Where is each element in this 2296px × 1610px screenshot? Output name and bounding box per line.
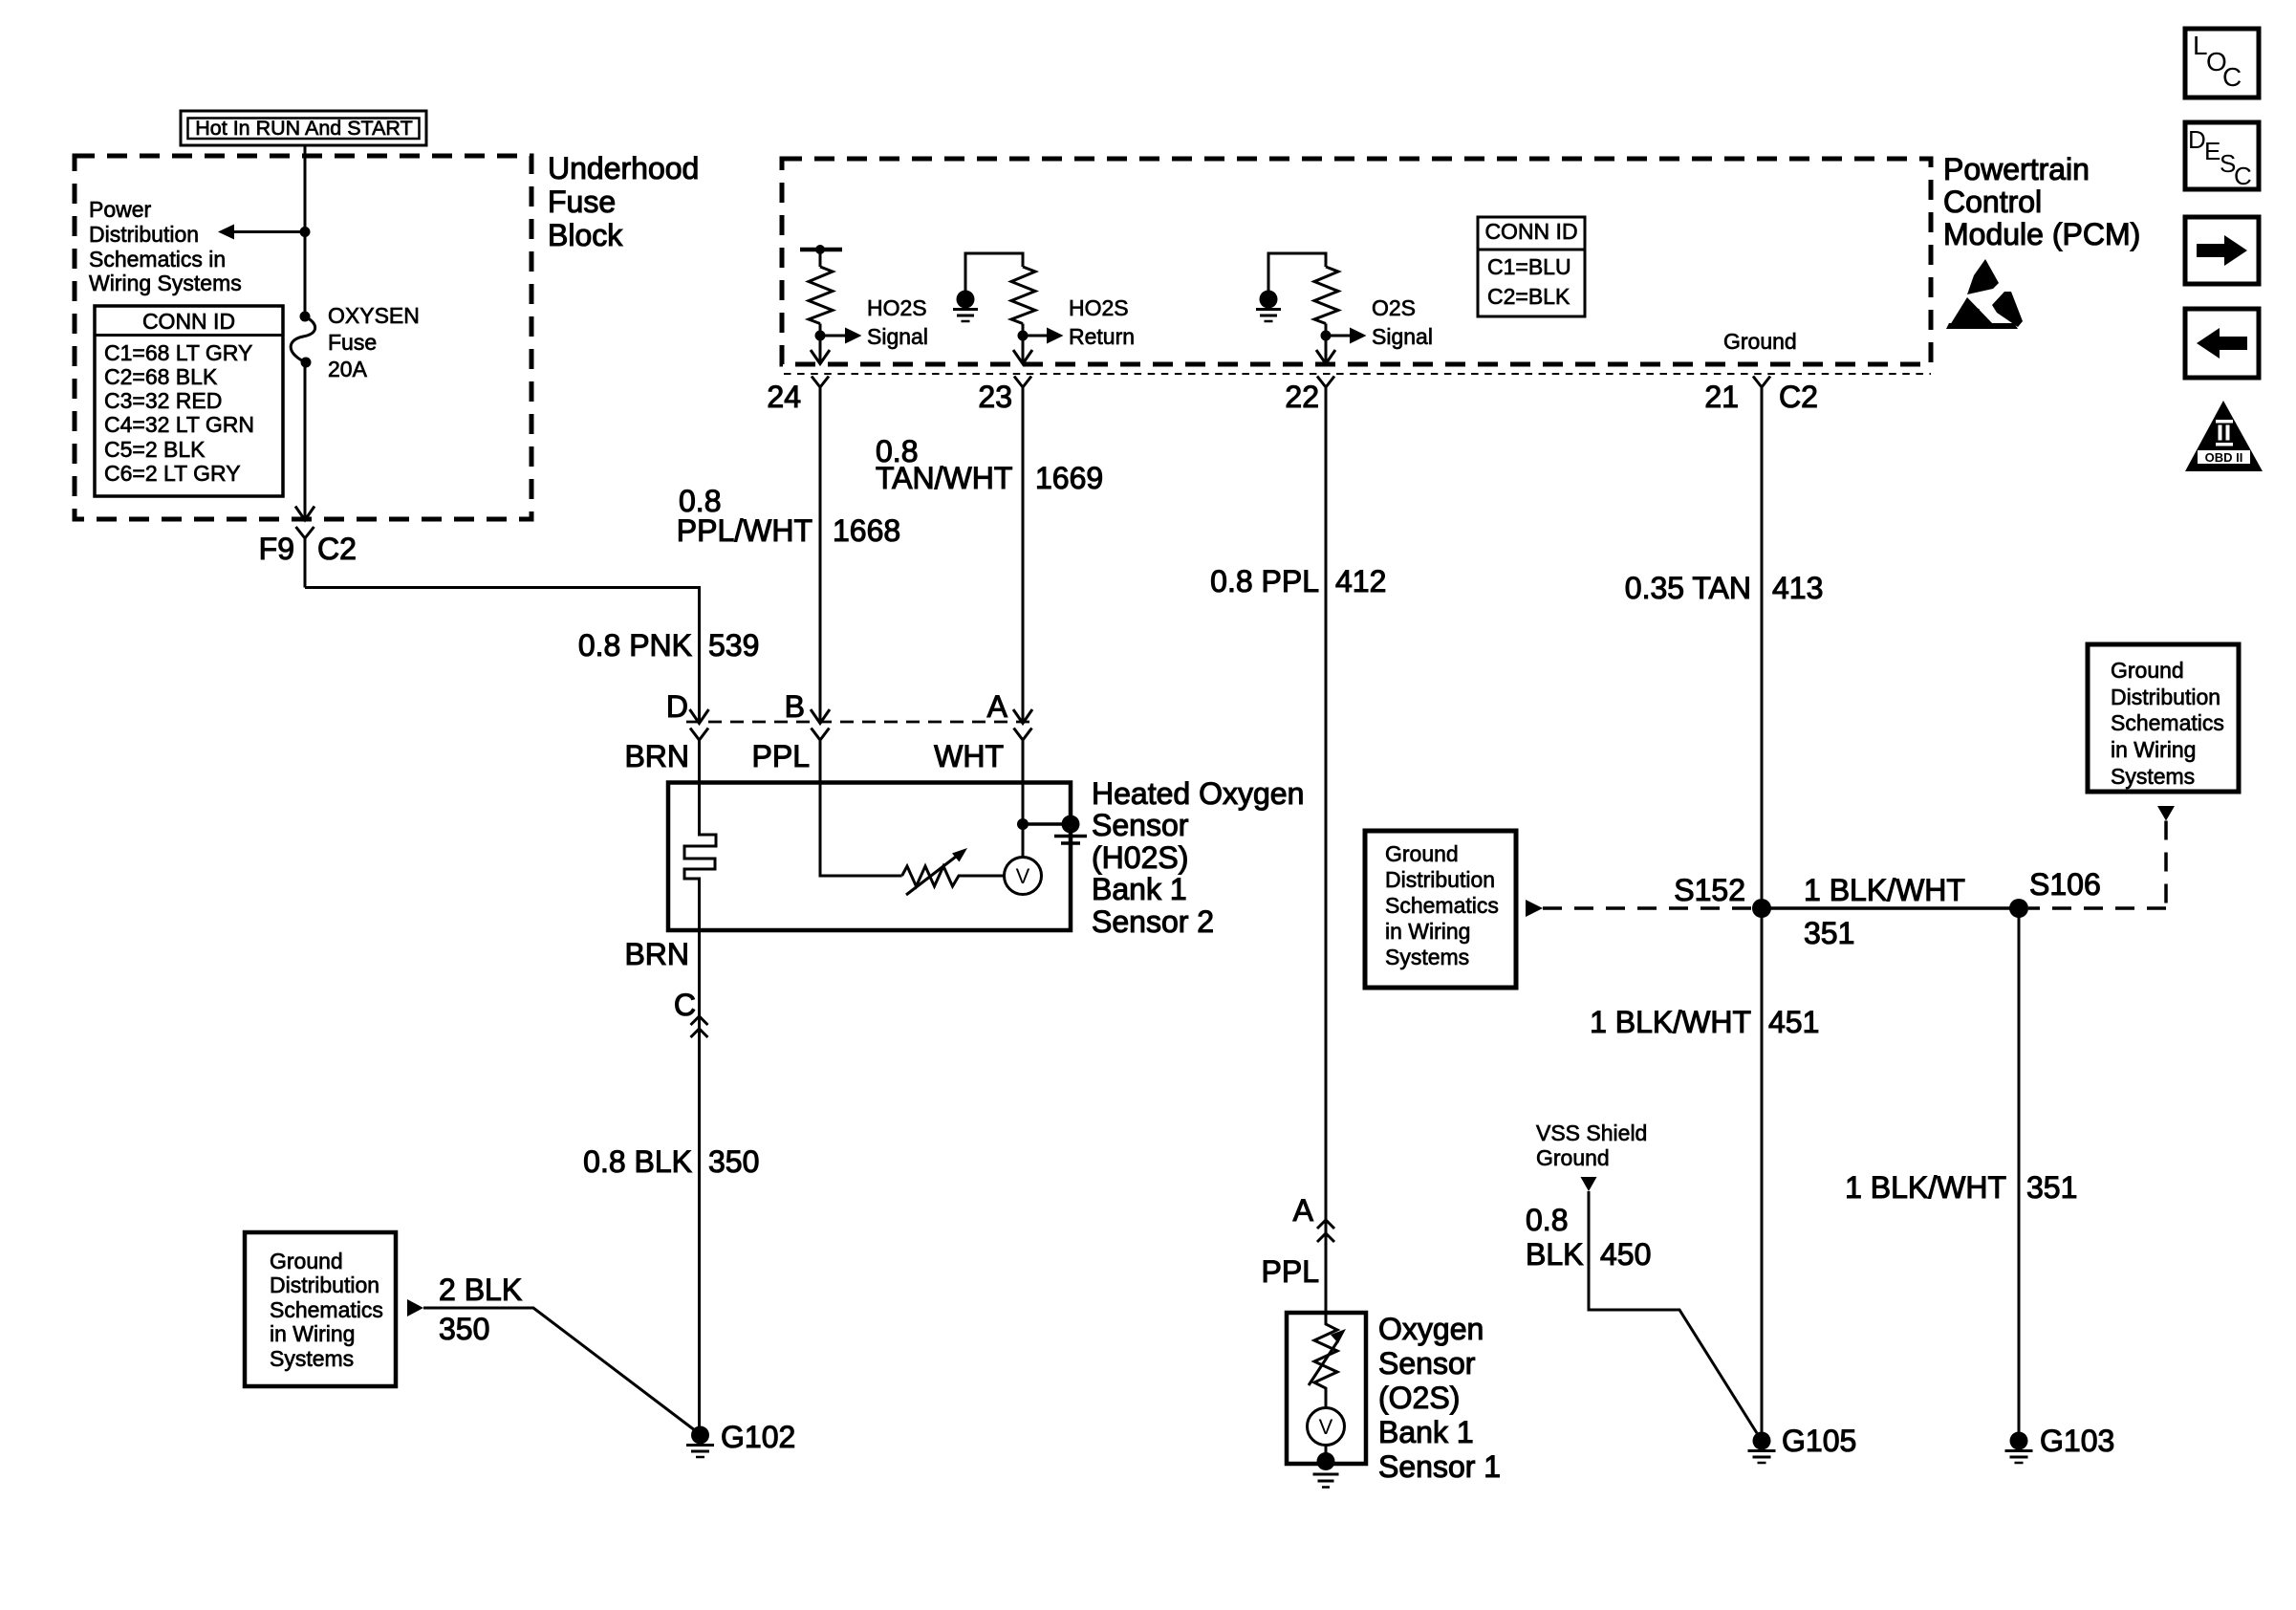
svg-text:Powertrain: Powertrain	[1943, 152, 2090, 186]
svg-text:0.8 BLK: 0.8 BLK	[583, 1144, 692, 1179]
pin 24 female	[812, 377, 829, 388]
svg-text:C1=BLU: C1=BLU	[1487, 254, 1571, 279]
svg-text:D: D	[2188, 125, 2206, 154]
label: Underhood Fuse Block	[548, 151, 699, 252]
svg-text:C4=32 LT GRN: C4=32 LT GRN	[104, 412, 254, 437]
voltmeter V (HO2S cell)	[1005, 858, 1042, 895]
node: splice S106	[2009, 899, 2028, 918]
pin B male arrow	[811, 709, 830, 724]
svg-text:C2=68 BLK: C2=68 BLK	[104, 364, 218, 389]
label: Power Distribution Schematics in Wiring Systems	[89, 197, 242, 295]
svg-text:Sensor 1: Sensor 1	[1378, 1449, 1501, 1484]
node: junction WHT to case ground	[1017, 818, 1029, 830]
svg-text:C5=2 BLK: C5=2 BLK	[104, 437, 206, 462]
wire: dashed reference to S152	[1543, 906, 1762, 910]
node: junction R3 to O2S Signal	[1321, 331, 1332, 341]
wire: feed from Hot In RUN And START down to fuse	[304, 145, 307, 316]
ground G103	[2005, 1432, 2033, 1464]
label: HO2S Return	[1069, 295, 1135, 349]
svg-text:Bank 1: Bank 1	[1378, 1415, 1474, 1449]
inline connector line (HO2S harness connector D/B/A)	[686, 721, 1038, 724]
wire: O2S Signal arrow	[1326, 328, 1367, 344]
PCM harness connector line	[784, 373, 1931, 375]
svg-text:C: C	[2234, 162, 2252, 190]
svg-text:in Wiring: in Wiring	[270, 1321, 355, 1346]
label: Heated Oxygen Sensor (H02S) Bank 1 Sensor 2	[1092, 776, 1304, 939]
connector ID table (underhood fuse block)	[95, 306, 283, 496]
svg-text:Fuse: Fuse	[328, 330, 377, 355]
pin 23 male arrow	[1013, 350, 1032, 364]
svg-text:Schematics: Schematics	[270, 1297, 383, 1322]
resistor R1 (HO2S signal pull)	[800, 245, 842, 364]
svg-text:412: 412	[1335, 564, 1386, 598]
svg-text:Ground: Ground	[1385, 841, 1459, 866]
label: 0.8 PPL 412	[1210, 564, 1386, 598]
label: VSS Shield Ground	[1536, 1120, 1647, 1170]
svg-text:Distribution: Distribution	[1385, 867, 1495, 892]
svg-text:CONN ID: CONN ID	[1484, 219, 1577, 244]
svg-text:20A: 20A	[328, 357, 368, 381]
svg-text:Ground: Ground	[2111, 658, 2184, 683]
svg-text:Systems: Systems	[270, 1346, 354, 1371]
svg-text:539: 539	[708, 628, 759, 663]
wire: HO2S Return arrow	[1023, 328, 1064, 344]
svg-text:C6=2 LT GRY: C6=2 LT GRY	[104, 461, 241, 486]
svg-text:V: V	[1016, 864, 1030, 888]
svg-text:413: 413	[1772, 571, 1823, 605]
pin A male arrow	[1013, 709, 1032, 724]
svg-text:1669: 1669	[1035, 461, 1103, 495]
svg-text:(H02S): (H02S)	[1092, 840, 1188, 875]
svg-text:1 BLK/WHT: 1 BLK/WHT	[1804, 873, 1965, 907]
pin 21 female	[1753, 377, 1770, 388]
svg-text:C3=32 RED: C3=32 RED	[104, 388, 222, 413]
svg-text:BRN: BRN	[624, 937, 689, 971]
svg-text:Sensor: Sensor	[1092, 808, 1189, 842]
label: 0.8 PPL/WHT 1668	[677, 484, 900, 548]
svg-text:Ground: Ground	[1723, 329, 1797, 354]
pin D female	[690, 729, 708, 741]
svg-text:S152: S152	[1674, 873, 1745, 907]
node: junction R2 to HO2S Return	[1018, 331, 1029, 341]
label: 0.8 BLK 450	[1526, 1203, 1651, 1272]
svg-text:HO2S: HO2S	[1069, 295, 1129, 320]
svg-text:1 BLK/WHT: 1 BLK/WHT	[1590, 1005, 1751, 1039]
inline connector A (O2S pigtail, double chevron)	[1317, 1220, 1334, 1242]
svg-text:1 BLK/WHT: 1 BLK/WHT	[1845, 1170, 2006, 1205]
ground (PCM internal, R2)	[953, 291, 978, 322]
svg-text:Schematics: Schematics	[1385, 893, 1499, 918]
off-page arrow from ground distribution box	[407, 1299, 423, 1316]
ground distribution reference box (bottom left)	[245, 1232, 396, 1386]
pin 22 male arrow	[1316, 350, 1335, 364]
label: Powertrain Control Module (PCM)	[1943, 152, 2140, 251]
svg-text:Underhood: Underhood	[548, 151, 699, 185]
svg-text:(O2S): (O2S)	[1378, 1381, 1460, 1415]
svg-text:B: B	[785, 689, 805, 724]
svg-text:S106: S106	[2029, 867, 2101, 902]
svg-text:Distribution: Distribution	[2111, 685, 2220, 709]
svg-text:VSS Shield: VSS Shield	[1536, 1120, 1647, 1145]
svg-text:350: 350	[708, 1144, 759, 1179]
svg-text:OBD II: OBD II	[2205, 450, 2243, 465]
wire: PPL into sensing element	[820, 740, 902, 876]
wire: WHT into cell	[1022, 740, 1025, 858]
svg-text:Distribution: Distribution	[270, 1273, 379, 1297]
wire: 0.8 BLK 450 to G105	[1589, 1191, 1757, 1433]
label: 0.8 TAN/WHT 1669	[876, 434, 1103, 495]
svg-text:PPL: PPL	[1262, 1254, 1319, 1289]
wire: 0.8 TAN/WHT 1669 (pin 23 to connector A)	[1022, 387, 1025, 724]
svg-text:HO2S: HO2S	[867, 295, 927, 320]
svg-text:2 BLK: 2 BLK	[439, 1273, 522, 1307]
wire: 0.8 PPL/WHT 1668 (pin 24 to connector B)	[819, 387, 822, 724]
svg-text:0.8 PNK: 0.8 PNK	[578, 628, 692, 663]
wire: to case ground	[1023, 822, 1071, 826]
power source box "Hot In RUN And START"	[181, 111, 426, 145]
svg-text:C2: C2	[317, 532, 357, 566]
ESD sensitivity symbol	[1946, 259, 2023, 329]
svg-text:C2: C2	[1779, 380, 1818, 414]
pin 23 female	[1014, 377, 1031, 388]
label: O2S Signal	[1372, 295, 1433, 349]
wire: 0.8 PNK 539 from F9/C2 to HO2S connector pin D	[305, 588, 700, 724]
label: 1 BLK/WHT 351	[1804, 873, 1965, 950]
svg-text:Schematics: Schematics	[2111, 710, 2224, 735]
svg-text:Ground: Ground	[1536, 1145, 1610, 1170]
case ground symbol on HO2S housing	[1054, 816, 1087, 844]
pin 22 female	[1317, 377, 1334, 388]
svg-text:A: A	[1293, 1193, 1314, 1228]
connector F9/C2 (female)	[296, 527, 314, 588]
svg-text:450: 450	[1600, 1237, 1651, 1272]
svg-text:351: 351	[1804, 916, 1854, 950]
svg-text:351: 351	[2026, 1170, 2077, 1205]
svg-text:in Wiring: in Wiring	[1385, 919, 1470, 944]
pin D male arrow	[690, 709, 709, 724]
oxygen sensor O2S box	[1287, 1313, 1366, 1464]
svg-text:Hot In RUN And START: Hot In RUN And START	[195, 117, 412, 140]
svg-text:Block: Block	[548, 218, 623, 252]
svg-text:Module (PCM): Module (PCM)	[1943, 217, 2140, 251]
wire: 0.35 TAN 413 (pin 21 to S152)	[1761, 387, 1764, 908]
svg-text:Systems: Systems	[1385, 945, 1469, 969]
wire: fuse to connector F9	[304, 362, 307, 519]
right arrow icon box	[2185, 217, 2259, 284]
ground distribution reference box (right)	[2088, 644, 2239, 792]
LOC icon box	[2185, 29, 2259, 98]
svg-text:G103: G103	[2040, 1424, 2114, 1458]
heated oxygen sensor HO2S box	[668, 783, 1071, 931]
node: splice S152	[1752, 899, 1771, 918]
svg-text:21: 21	[1704, 380, 1739, 414]
svg-text:Signal: Signal	[1372, 324, 1433, 349]
svg-text:C1=68 LT GRY: C1=68 LT GRY	[104, 340, 252, 365]
svg-text:CONN ID: CONN ID	[142, 309, 235, 334]
svg-text:C: C	[2222, 62, 2242, 92]
svg-text:22: 22	[1285, 380, 1319, 414]
connector ID table (PCM)	[1478, 217, 1585, 316]
svg-text:TAN/WHT: TAN/WHT	[876, 461, 1012, 495]
svg-text:24: 24	[767, 380, 801, 414]
off-page arrow below right ground box	[2157, 806, 2175, 821]
svg-text:Systems: Systems	[2111, 764, 2195, 789]
svg-text:Wiring Systems: Wiring Systems	[89, 271, 242, 295]
svg-text:Control: Control	[1943, 185, 2042, 219]
svg-text:Ground: Ground	[270, 1249, 343, 1273]
svg-text:O2S: O2S	[1372, 295, 1416, 320]
svg-text:PPL/WHT: PPL/WHT	[677, 513, 812, 548]
label: OXYSEN Fuse 20A	[328, 303, 420, 381]
DESC icon box	[2185, 122, 2259, 190]
svg-text:WHT: WHT	[934, 739, 1004, 773]
svg-text:C2=BLK: C2=BLK	[1487, 284, 1570, 309]
svg-text:Schematics in: Schematics in	[89, 247, 226, 272]
pin A female	[1014, 729, 1032, 741]
svg-text:OXYSEN: OXYSEN	[328, 303, 420, 328]
node: junction R1 to HO2S Signal	[815, 331, 826, 341]
wire: 2 BLK 350 to G102	[423, 1308, 698, 1432]
pin 24 male arrow	[811, 350, 830, 364]
svg-text:0.8 PPL: 0.8 PPL	[1210, 564, 1319, 598]
svg-text:23: 23	[978, 380, 1012, 414]
resistor R3 (O2S signal pull)	[1268, 253, 1338, 364]
svg-text:C: C	[674, 988, 696, 1022]
svg-text:G102: G102	[721, 1420, 795, 1454]
label: 0.35 TAN 413	[1625, 571, 1824, 605]
svg-text:BLK: BLK	[1526, 1237, 1583, 1272]
svg-text:Return: Return	[1069, 324, 1135, 349]
svg-text:D: D	[666, 689, 688, 724]
svg-text:0.8: 0.8	[1526, 1203, 1568, 1237]
left arrow icon box	[2185, 309, 2259, 378]
variable resistor (sensing element)	[902, 848, 1005, 895]
node: junction to power distribution reference	[300, 227, 311, 237]
svg-text:Heated Oxygen: Heated Oxygen	[1092, 776, 1304, 811]
svg-text:V: V	[1319, 1415, 1333, 1439]
resistor R2 (HO2S return)	[965, 253, 1035, 364]
svg-text:BRN: BRN	[624, 739, 689, 773]
svg-text:F9: F9	[259, 532, 294, 566]
wire: 1 BLK/WHT 351 (S152 to S106)	[1762, 906, 2019, 910]
svg-text:Power: Power	[89, 197, 152, 222]
heater element (BRN wire through heater)	[684, 740, 716, 1426]
wire: 0.8 PPL 412 (pin 22 to O2S sensor)	[1325, 387, 1328, 1313]
label: HO2S Signal	[867, 295, 928, 349]
voltmeter V (O2S cell)	[1308, 1408, 1345, 1446]
off-page arrow from middle ground box	[1526, 900, 1543, 917]
wire: off-page reference arrow to Power Distribution Schematics	[218, 225, 305, 240]
label: Oxygen Sensor (O2S) Bank 1 Sensor 1	[1378, 1312, 1501, 1484]
svg-text:G105: G105	[1782, 1424, 1856, 1458]
svg-text:Sensor: Sensor	[1378, 1346, 1476, 1381]
svg-text:in Wiring: in Wiring	[2111, 737, 2196, 762]
ground distribution reference box (middle)	[1365, 831, 1516, 988]
inline connector C (double chevron)	[691, 1016, 708, 1037]
svg-text:Fuse: Fuse	[548, 185, 616, 219]
label: 1 BLK/WHT 351 (lower)	[1845, 1170, 2077, 1205]
svg-text:451: 451	[1768, 1005, 1819, 1039]
connector arrow (male) at fuse block edge	[295, 507, 314, 521]
svg-text:Signal: Signal	[867, 324, 928, 349]
svg-text:PPL: PPL	[752, 739, 810, 773]
ground G105	[1748, 1432, 1776, 1464]
svg-text:A: A	[987, 689, 1008, 724]
fuse OXYSEN 20A	[291, 312, 314, 368]
svg-text:Bank 1: Bank 1	[1092, 872, 1187, 906]
pin B female	[812, 729, 830, 741]
wire: HO2S Signal arrow	[820, 328, 862, 344]
wire: dashed reference from right box to S106	[2028, 821, 2166, 909]
svg-text:Sensor 2: Sensor 2	[1092, 904, 1214, 939]
case ground at O2S	[1313, 1446, 1339, 1488]
wire: 1 BLK/WHT 351 (S106 to G103)	[2018, 908, 2021, 1432]
wire: 1 BLK/WHT 451 (S152 to G105)	[1761, 908, 1764, 1432]
svg-text:0.35 TAN: 0.35 TAN	[1625, 571, 1751, 605]
label: 1 BLK/WHT 451	[1590, 1005, 1819, 1039]
svg-text:Distribution: Distribution	[89, 222, 199, 247]
off-page arrow VSS shield ground	[1581, 1177, 1597, 1191]
variable resistor (O2S sensing element)	[1309, 1313, 1346, 1408]
svg-text:350: 350	[439, 1312, 489, 1346]
powertrain control module PCM dashed box	[782, 159, 1931, 364]
ground (PCM internal, R3)	[1256, 291, 1281, 322]
ground G102	[686, 1426, 714, 1458]
svg-text:E: E	[2204, 137, 2220, 165]
OBD II icon triangle	[2185, 401, 2263, 471]
underhood fuse block dashed box	[75, 156, 531, 519]
svg-text:1668: 1668	[833, 513, 900, 548]
svg-text:Oxygen: Oxygen	[1378, 1312, 1484, 1346]
